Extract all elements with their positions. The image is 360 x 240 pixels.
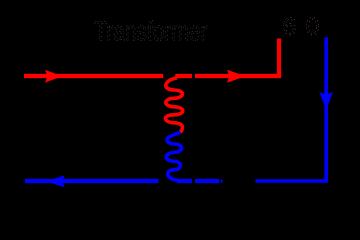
wire: red top conductor with corner up to right terminal: [24, 39, 279, 77]
coil: winding upper half (red): [165, 78, 182, 132]
core: transformer core vertical line (black, hidden on black bg): [192, 62, 195, 192]
node: small blue stub at break in bottom conductor: [221, 179, 223, 182]
wire: blue bottom conductor left segment: [25, 179, 219, 183]
svg-text:Transformer: Transformer: [94, 17, 208, 48]
label: top-right "60" terminal label: [283, 13, 320, 41]
component: hidden black device in bottom conductor: [223, 172, 255, 190]
wire: black casing erasure at top coil junction: [163, 71, 175, 79]
coil: winding lower half (blue): [166, 132, 181, 181]
label: top-left title (dark, nearly invisible on black): [94, 17, 208, 48]
arrowhead: blue current arrow bottom (pointing left): [46, 175, 65, 187]
wire: black casing erasure at bottom coil junction: [159, 176, 178, 185]
arrowhead: blue current arrow (pointing down): [319, 92, 333, 110]
arrowhead: red current arrow left (pointing right): [45, 70, 62, 83]
wire: blue right conductor down from terminal to bottom corner: [256, 37, 327, 181]
arrowhead: red current arrow right (pointing right): [227, 70, 246, 83]
